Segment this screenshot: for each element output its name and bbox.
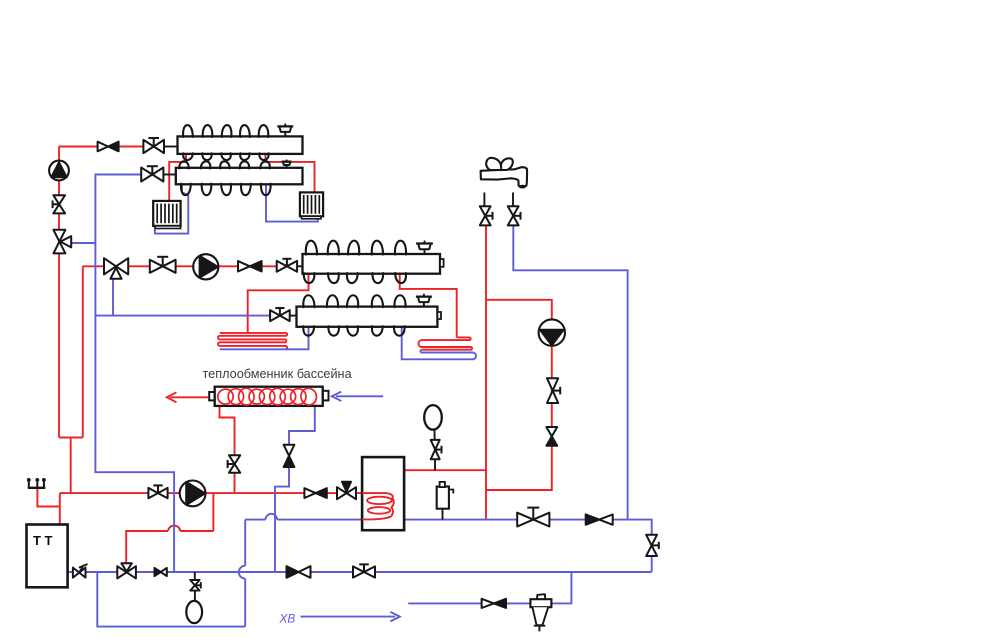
svg-text:Т Т: Т Т	[33, 533, 53, 548]
svg-text:ХВ: ХВ	[279, 612, 296, 626]
svg-text:теплообменник бассейна: теплообменник бассейна	[203, 367, 353, 381]
